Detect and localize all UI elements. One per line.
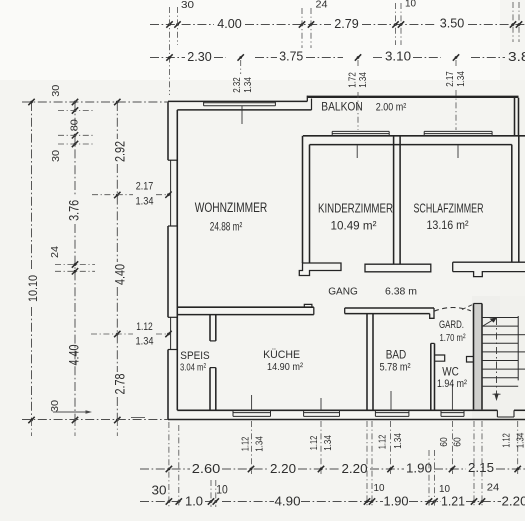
svg-text:1.34: 1.34 xyxy=(357,72,369,88)
svg-text:30: 30 xyxy=(50,150,62,162)
svg-text:1.12: 1.12 xyxy=(136,321,153,333)
svg-text:BAD: BAD xyxy=(386,350,407,362)
svg-text:1.21: 1.21 xyxy=(441,493,465,508)
svg-text:2.78: 2.78 xyxy=(112,373,128,394)
svg-text:60: 60 xyxy=(439,437,450,447)
svg-text:SCHLAFZIMMER: SCHLAFZIMMER xyxy=(414,201,484,216)
svg-text:2.17: 2.17 xyxy=(136,181,154,193)
svg-text:1.90: 1.90 xyxy=(406,461,432,476)
svg-text:1.70 m²: 1.70 m² xyxy=(440,332,466,344)
svg-text:3.85: 3.85 xyxy=(508,49,525,64)
svg-text:1.34: 1.34 xyxy=(516,432,525,448)
svg-text:2.00 m²: 2.00 m² xyxy=(376,102,407,114)
svg-text:10: 10 xyxy=(216,483,228,497)
svg-text:24: 24 xyxy=(487,482,500,494)
svg-text:2.20: 2.20 xyxy=(270,461,296,476)
svg-text:24.88 m²: 24.88 m² xyxy=(210,220,243,234)
svg-text:1.94 m²: 1.94 m² xyxy=(437,378,467,390)
svg-text:GANG: GANG xyxy=(328,286,358,298)
svg-text:3.50: 3.50 xyxy=(440,16,465,31)
svg-text:4.40: 4.40 xyxy=(66,344,82,365)
svg-text:80: 80 xyxy=(69,119,81,131)
svg-text:BALKON: BALKON xyxy=(321,100,363,114)
svg-text:1.34: 1.34 xyxy=(323,435,334,451)
svg-text:13.16 m²: 13.16 m² xyxy=(427,218,469,232)
svg-text:10.10: 10.10 xyxy=(28,275,40,302)
svg-text:10: 10 xyxy=(405,0,416,10)
svg-text:1.34: 1.34 xyxy=(455,71,467,87)
svg-text:WOHNZIMMER: WOHNZIMMER xyxy=(195,200,268,215)
svg-text:10: 10 xyxy=(439,483,450,495)
svg-text:14.90 m²: 14.90 m² xyxy=(267,361,303,373)
svg-text:24: 24 xyxy=(316,0,328,11)
svg-text:30: 30 xyxy=(152,483,167,497)
svg-text:1.12: 1.12 xyxy=(241,437,252,452)
svg-text:3.76: 3.76 xyxy=(66,200,82,221)
svg-text:6.38 m: 6.38 m xyxy=(385,286,417,298)
svg-text:KINDERZIMMER: KINDERZIMMER xyxy=(318,201,393,216)
svg-text:24: 24 xyxy=(49,246,61,258)
svg-text:2.20: 2.20 xyxy=(342,461,368,476)
svg-text:1.34: 1.34 xyxy=(136,336,154,348)
svg-text:3.75: 3.75 xyxy=(279,49,303,64)
svg-text:KÜCHE: KÜCHE xyxy=(263,349,300,361)
svg-text:2.20: 2.20 xyxy=(502,493,525,508)
svg-text:2.92: 2.92 xyxy=(112,141,128,162)
svg-text:2.60: 2.60 xyxy=(192,461,221,476)
svg-text:SPEIS: SPEIS xyxy=(180,350,209,362)
svg-text:3.04 m²: 3.04 m² xyxy=(180,362,206,374)
svg-text:5.78 m²: 5.78 m² xyxy=(380,362,411,374)
svg-text:10.49 m²: 10.49 m² xyxy=(331,219,377,233)
svg-text:2.79: 2.79 xyxy=(334,16,359,31)
svg-text:1.34: 1.34 xyxy=(242,77,254,93)
svg-text:30: 30 xyxy=(181,0,195,11)
svg-text:1.34: 1.34 xyxy=(255,436,266,452)
svg-text:10: 10 xyxy=(374,482,385,494)
svg-text:4.90: 4.90 xyxy=(275,493,301,508)
svg-text:1.12: 1.12 xyxy=(309,436,320,451)
svg-text:30: 30 xyxy=(49,400,61,412)
svg-text:1.12: 1.12 xyxy=(378,435,389,450)
svg-text:4.40: 4.40 xyxy=(112,264,128,285)
svg-text:4.00: 4.00 xyxy=(217,16,242,31)
svg-text:1.34: 1.34 xyxy=(393,433,404,449)
svg-text:2.30: 2.30 xyxy=(187,49,212,64)
svg-text:1.12: 1.12 xyxy=(502,433,513,448)
svg-text:3.10: 3.10 xyxy=(385,49,411,64)
svg-text:60: 60 xyxy=(453,437,464,447)
svg-text:1.34: 1.34 xyxy=(136,196,154,208)
svg-text:2.15: 2.15 xyxy=(468,460,494,475)
svg-text:WC: WC xyxy=(442,365,459,379)
svg-text:GARD.: GARD. xyxy=(439,319,464,331)
svg-text:1.0: 1.0 xyxy=(185,494,203,509)
svg-text:30: 30 xyxy=(50,85,62,97)
svg-text:1.90: 1.90 xyxy=(384,493,409,508)
